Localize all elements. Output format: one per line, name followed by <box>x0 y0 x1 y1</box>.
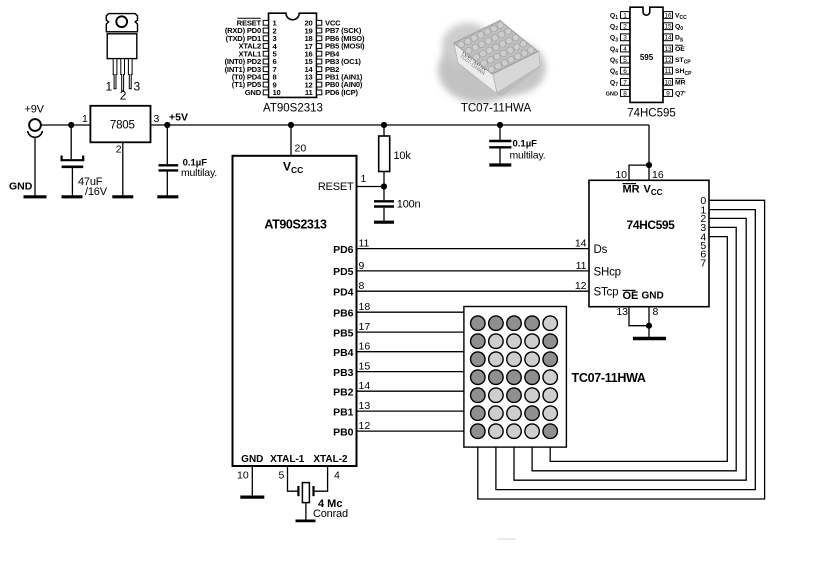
svg-text:multilay.: multilay. <box>510 150 546 162</box>
DIS1 LED row 4 col 2 <box>489 370 504 385</box>
wire U3 output 2 to matrix column 3 <box>514 218 746 480</box>
svg-text:3: 3 <box>154 113 160 125</box>
wire U3 output 4 to matrix column 5 <box>550 237 727 462</box>
svg-text:14: 14 <box>664 35 672 42</box>
wire PD4 <box>357 290 590 292</box>
DIS1 LED row 5 col 3 <box>507 388 522 403</box>
node: U3 VCC/MR junction <box>646 162 652 168</box>
microcontroller U2 AT90S2313 block <box>233 156 357 466</box>
ceramic resonator X1 4Mc <box>298 483 313 520</box>
DIS1 LED row 3 col 2 <box>489 352 504 367</box>
ground (U4 pin 2) <box>112 195 133 198</box>
U1 pinout pin 15 (PB3 (OC1)) <box>304 57 361 66</box>
TC07-11HWA LED matrix photograph <box>438 21 546 104</box>
svg-text:10: 10 <box>615 169 627 181</box>
svg-text:2: 2 <box>120 89 127 103</box>
ground (C4) <box>489 163 511 166</box>
DIS1 LED row 7 col 2 <box>489 424 504 439</box>
7805 TO-220 package drawing <box>106 14 137 59</box>
svg-text:18: 18 <box>359 301 371 313</box>
svg-text:7: 7 <box>623 79 627 86</box>
DIS1 LED row 7 col 5 <box>543 424 558 439</box>
ground (U2 GND) <box>240 496 264 499</box>
wire PB3 <box>357 371 464 373</box>
U3 pinout pin 2 (Q2) <box>610 23 630 32</box>
svg-text:2: 2 <box>623 24 627 31</box>
svg-text:9: 9 <box>359 260 365 272</box>
svg-text:5: 5 <box>623 57 627 64</box>
DIS1 LED row 2 col 5 <box>543 334 558 349</box>
DIS1 LED row 6 col 5 <box>543 406 558 421</box>
node: R1 junction <box>381 122 387 128</box>
U3 pinout pin 1 (Q1) <box>610 12 630 21</box>
svg-text:SHcp: SHcp <box>594 266 621 278</box>
svg-text:PB2: PB2 <box>333 387 354 399</box>
svg-text:XTAL-2: XTAL-2 <box>313 454 348 465</box>
svg-text:PB0: PB0 <box>333 426 354 438</box>
7805 package leg 1 <box>113 59 117 89</box>
U3 pinout pin 8 (GND) <box>606 90 630 98</box>
DIS1 LED row 4 col 1 <box>471 370 486 385</box>
U3 pinout pin 6 (Q6) <box>610 67 630 76</box>
U1 pinout pin 13 (PB1 (AIN1)) <box>304 73 362 82</box>
+9V input jack J1 <box>28 119 43 137</box>
DIS1 LED row 5 col 5 <box>543 388 558 403</box>
ground (U3) <box>633 337 666 341</box>
U1 pinout pin 4 (XTAL2) <box>239 42 278 51</box>
svg-text:8: 8 <box>653 306 659 318</box>
DIS1 LED row 3 col 3 <box>507 352 522 367</box>
svg-text:PB3: PB3 <box>333 367 354 379</box>
faint artifact mark <box>497 538 516 540</box>
svg-text:1: 1 <box>361 173 367 185</box>
svg-text:11: 11 <box>665 68 672 75</box>
U1 pinout pin 7 ((INT1) PD3) <box>225 65 277 74</box>
svg-text:100n: 100n <box>397 199 421 211</box>
wire PB4 <box>357 351 464 353</box>
DIS1 LED row 2 col 1 <box>471 334 486 349</box>
svg-text:TC07-11HWA: TC07-11HWA <box>461 103 532 115</box>
wire PB0 <box>357 430 464 432</box>
svg-text:TC07-11HWA: TC07-11HWA <box>572 371 646 385</box>
DIS1 LED row 1 col 3 <box>507 316 522 331</box>
U3 pinout pin 16 (VCC) <box>664 12 688 21</box>
wire PB6 <box>357 311 464 313</box>
DIS1 LED row 3 col 5 <box>543 352 558 367</box>
svg-text:10: 10 <box>273 88 281 97</box>
svg-text:3: 3 <box>134 80 141 94</box>
U3 pinout pin 13 (OE) <box>664 45 686 53</box>
svg-text:/16V: /16V <box>85 186 108 198</box>
DIS1 LED row 4 col 3 <box>507 370 522 385</box>
wire RESET to R1/C3 <box>357 186 385 188</box>
U1 pinout pin 8 ((T0) PD4) <box>232 73 277 82</box>
svg-text:7: 7 <box>700 258 706 270</box>
U1 pinout pin 1 (RESET) <box>237 18 278 27</box>
ground (X1) <box>296 520 316 523</box>
DIS1 LED row 4 col 4 <box>525 370 540 385</box>
svg-text:STcp: STcp <box>594 287 619 299</box>
svg-text:GND: GND <box>9 181 33 193</box>
U1 pinout pin 20 (VCC) <box>304 18 341 27</box>
DIS1 LED row 1 col 2 <box>489 316 504 331</box>
U1 pinout pin 18 (PB6 (MISO)) <box>304 34 365 43</box>
DIS1 LED row 3 col 4 <box>525 352 540 367</box>
DIS1 LED row 5 col 1 <box>471 388 486 403</box>
svg-text:74HC595: 74HC595 <box>627 218 676 232</box>
U3 pinout pin 11 (SHCP) <box>664 67 693 76</box>
svg-text:+9V: +9V <box>25 104 45 116</box>
U1 pinout pin 9 ((T1) PD5) <box>232 80 277 89</box>
AT90S2313 DIP-20 pinout body <box>269 13 317 97</box>
DIS1 LED row 4 col 5 <box>543 370 558 385</box>
svg-text:GND: GND <box>245 88 262 97</box>
wire U3 output 0 to matrix column 1 <box>478 200 765 499</box>
svg-text:OE: OE <box>675 46 685 53</box>
wire U2 GND <box>251 466 253 496</box>
wire XTAL-2 to resonator <box>314 466 328 491</box>
node: OE/GND junction <box>646 323 652 329</box>
DIS1 LED row 7 col 3 <box>507 424 522 439</box>
svg-text:5: 5 <box>279 470 285 482</box>
U1 pinout pin 14 (PB2) <box>304 65 339 74</box>
svg-text:10: 10 <box>664 79 672 86</box>
U3 pinout pin 3 (Q3) <box>610 34 630 43</box>
wire jack to regulator <box>41 124 90 126</box>
capacitor C2 0.1uF multilayer <box>159 125 179 196</box>
svg-text:20: 20 <box>295 143 307 155</box>
wire PD5 <box>357 270 590 272</box>
svg-text:Conrad: Conrad <box>313 508 348 520</box>
U1 pinout pin 17 (PB5 (MOSI)) <box>304 42 365 51</box>
node: C4 junction <box>497 122 503 128</box>
svg-text:16: 16 <box>652 169 664 181</box>
svg-text:13: 13 <box>359 400 371 412</box>
wire U2 VCC <box>290 125 292 156</box>
U1 pinout pin 6 ((INT0) PD2) <box>225 57 277 66</box>
svg-text:14: 14 <box>575 238 587 250</box>
svg-text:AT90S2313: AT90S2313 <box>263 103 323 115</box>
DIS1 LED row 6 col 1 <box>471 406 486 421</box>
svg-text:GND: GND <box>642 290 664 301</box>
svg-text:11: 11 <box>359 238 370 250</box>
svg-text:74HC595: 74HC595 <box>627 108 676 120</box>
svg-text:XTAL-1: XTAL-1 <box>270 454 305 465</box>
DIS1 LED row 7 col 1 <box>471 424 486 439</box>
svg-text:1: 1 <box>82 113 88 125</box>
svg-text:PD6: PD6 <box>333 244 354 256</box>
DIS1 LED row 1 col 4 <box>525 316 540 331</box>
svg-text:PB6: PB6 <box>333 308 354 320</box>
DIS1 LED row 6 col 2 <box>489 406 504 421</box>
wire +5V rail to U3 VCC <box>648 125 650 180</box>
svg-text:15: 15 <box>664 24 672 31</box>
svg-text:Q7': Q7' <box>675 91 686 98</box>
U1 pinout pin 19 (PB7 (SCK)) <box>304 26 361 35</box>
capacitor C3 100n <box>374 187 394 222</box>
svg-text:595: 595 <box>640 53 654 62</box>
svg-text:0.1µF: 0.1µF <box>513 139 538 150</box>
svg-text:10k: 10k <box>394 150 412 162</box>
wire PB2 <box>357 390 464 392</box>
svg-text:PB4: PB4 <box>333 347 354 359</box>
U4 pin 2 wire <box>122 142 124 195</box>
node: U2 VCC junction <box>288 122 294 128</box>
svg-text:1: 1 <box>623 12 627 19</box>
svg-text:16: 16 <box>359 341 371 353</box>
svg-text:10: 10 <box>237 470 249 482</box>
wire U3 OE to GND <box>629 307 649 326</box>
ground (C2) <box>157 195 178 198</box>
DIS1 LED row 2 col 2 <box>489 334 504 349</box>
DIS1 LED row 1 col 5 <box>543 316 558 331</box>
ground (C3) <box>374 221 394 224</box>
svg-text:16: 16 <box>664 12 672 19</box>
U3 pinout pin 5 (Q5) <box>610 56 630 65</box>
svg-text:9: 9 <box>666 91 670 98</box>
svg-text:PD4: PD4 <box>333 287 354 299</box>
wire U3 MR to VCC <box>629 165 649 180</box>
svg-text:12: 12 <box>575 280 587 292</box>
svg-text:17: 17 <box>359 321 371 333</box>
U3 pinout pin 9 (Q7') <box>664 90 687 98</box>
DIS1 LED row 2 col 4 <box>525 334 540 349</box>
DIS1 LED row 1 col 1 <box>471 316 486 331</box>
svg-text:multilay.: multilay. <box>181 167 217 179</box>
DIS1 LED row 3 col 1 <box>471 352 486 367</box>
svg-text:MR: MR <box>675 79 686 86</box>
U3 pinout pin 14 (DS) <box>664 34 684 43</box>
DIS1 LED row 6 col 3 <box>507 406 522 421</box>
svg-text:RESET: RESET <box>318 181 354 193</box>
LED matrix DIS1 TC07-11HWA block <box>464 307 567 448</box>
svg-text:12: 12 <box>359 420 371 432</box>
svg-text:7805: 7805 <box>110 120 135 132</box>
svg-text:AT90S2313: AT90S2313 <box>264 218 327 232</box>
svg-text:11: 11 <box>305 88 314 97</box>
node: RESET junction <box>381 183 387 189</box>
U1 pinout pin 11 (PD6 (ICP)) <box>305 88 359 97</box>
svg-text:4: 4 <box>334 470 340 482</box>
voltage regulator U4 7805 <box>90 106 150 143</box>
svg-text:PB5: PB5 <box>333 327 354 339</box>
svg-text:PD6 (ICP): PD6 (ICP) <box>325 88 358 97</box>
svg-text:+5V: +5V <box>169 112 188 124</box>
wire XTAL-1 to resonator <box>288 466 299 491</box>
U1 pinout pin 3 ((TXD) PD1) <box>226 34 277 43</box>
svg-text:8: 8 <box>359 280 365 292</box>
svg-text:MR: MR <box>623 184 640 196</box>
wire PB1 <box>357 410 464 412</box>
DIS1 LED row 7 col 4 <box>525 424 540 439</box>
U1 pinout pin 10 (GND) <box>245 88 281 97</box>
wire U3 GND <box>648 307 650 337</box>
svg-text:13: 13 <box>664 46 672 53</box>
shift register U3 74HC595 block <box>589 180 709 306</box>
svg-text:13: 13 <box>616 306 628 318</box>
74HC595 DIP-16 pinout body <box>630 7 663 102</box>
DIS1 LED row 5 col 4 <box>525 388 540 403</box>
U3 pinout pin 10 (MR) <box>664 79 686 87</box>
7805 package leg 2 <box>121 59 125 91</box>
DIS1 LED row 6 col 4 <box>525 406 540 421</box>
U3 pinout pin 12 (STCP) <box>664 56 692 65</box>
7805 package leg 3 <box>128 59 132 89</box>
svg-text:Ds: Ds <box>594 244 608 256</box>
resistor R1 10k <box>379 125 390 187</box>
svg-text:GND: GND <box>241 454 263 465</box>
DIS1 LED row 5 col 2 <box>489 388 504 403</box>
wire jack to GND bar <box>34 137 36 195</box>
svg-text:PD5: PD5 <box>333 266 354 278</box>
+5V rail <box>151 124 650 126</box>
wire PB5 <box>357 331 464 333</box>
svg-text:PB1: PB1 <box>333 406 354 418</box>
ground (C1) <box>62 195 83 198</box>
DIS1 LED row 2 col 3 <box>507 334 522 349</box>
svg-text:2: 2 <box>116 144 122 156</box>
U3 pinout pin 4 (Q4) <box>610 45 630 54</box>
wire U3 output 1 to matrix column 2 <box>496 210 755 490</box>
U1 pinout pin 12 (PB0 (AIN0)) <box>304 80 362 89</box>
svg-text:3: 3 <box>623 35 627 42</box>
svg-text:14: 14 <box>359 380 371 392</box>
svg-text:GND: GND <box>606 92 618 98</box>
svg-text:OE: OE <box>623 290 639 302</box>
svg-text:11: 11 <box>576 260 587 272</box>
svg-text:4: 4 <box>623 46 627 53</box>
svg-text:1: 1 <box>106 80 113 94</box>
U3 pinout pin 7 (Q7) <box>610 79 630 88</box>
svg-text:15: 15 <box>359 361 371 373</box>
svg-text:12: 12 <box>664 57 672 64</box>
capacitor C4 0.1uF multilayer <box>489 125 511 164</box>
wire PD6 <box>357 248 590 250</box>
U1 pinout pin 16 (PB4) <box>304 49 340 58</box>
capacitor C1 47uF/16V electrolytic <box>62 125 84 196</box>
wire U3 output 3 to matrix column 4 <box>532 227 736 470</box>
node: C2 junction <box>164 122 170 128</box>
U1 pinout pin 5 (XTAL1) <box>239 49 278 58</box>
U3 pinout pin 15 (Q0) <box>664 23 684 32</box>
ground (input jack) <box>24 195 47 198</box>
U1 pinout pin 2 ((RXD) PD0) <box>225 26 277 35</box>
svg-text:6: 6 <box>623 68 627 75</box>
svg-text:8: 8 <box>623 91 627 98</box>
node: input junction <box>68 122 74 128</box>
